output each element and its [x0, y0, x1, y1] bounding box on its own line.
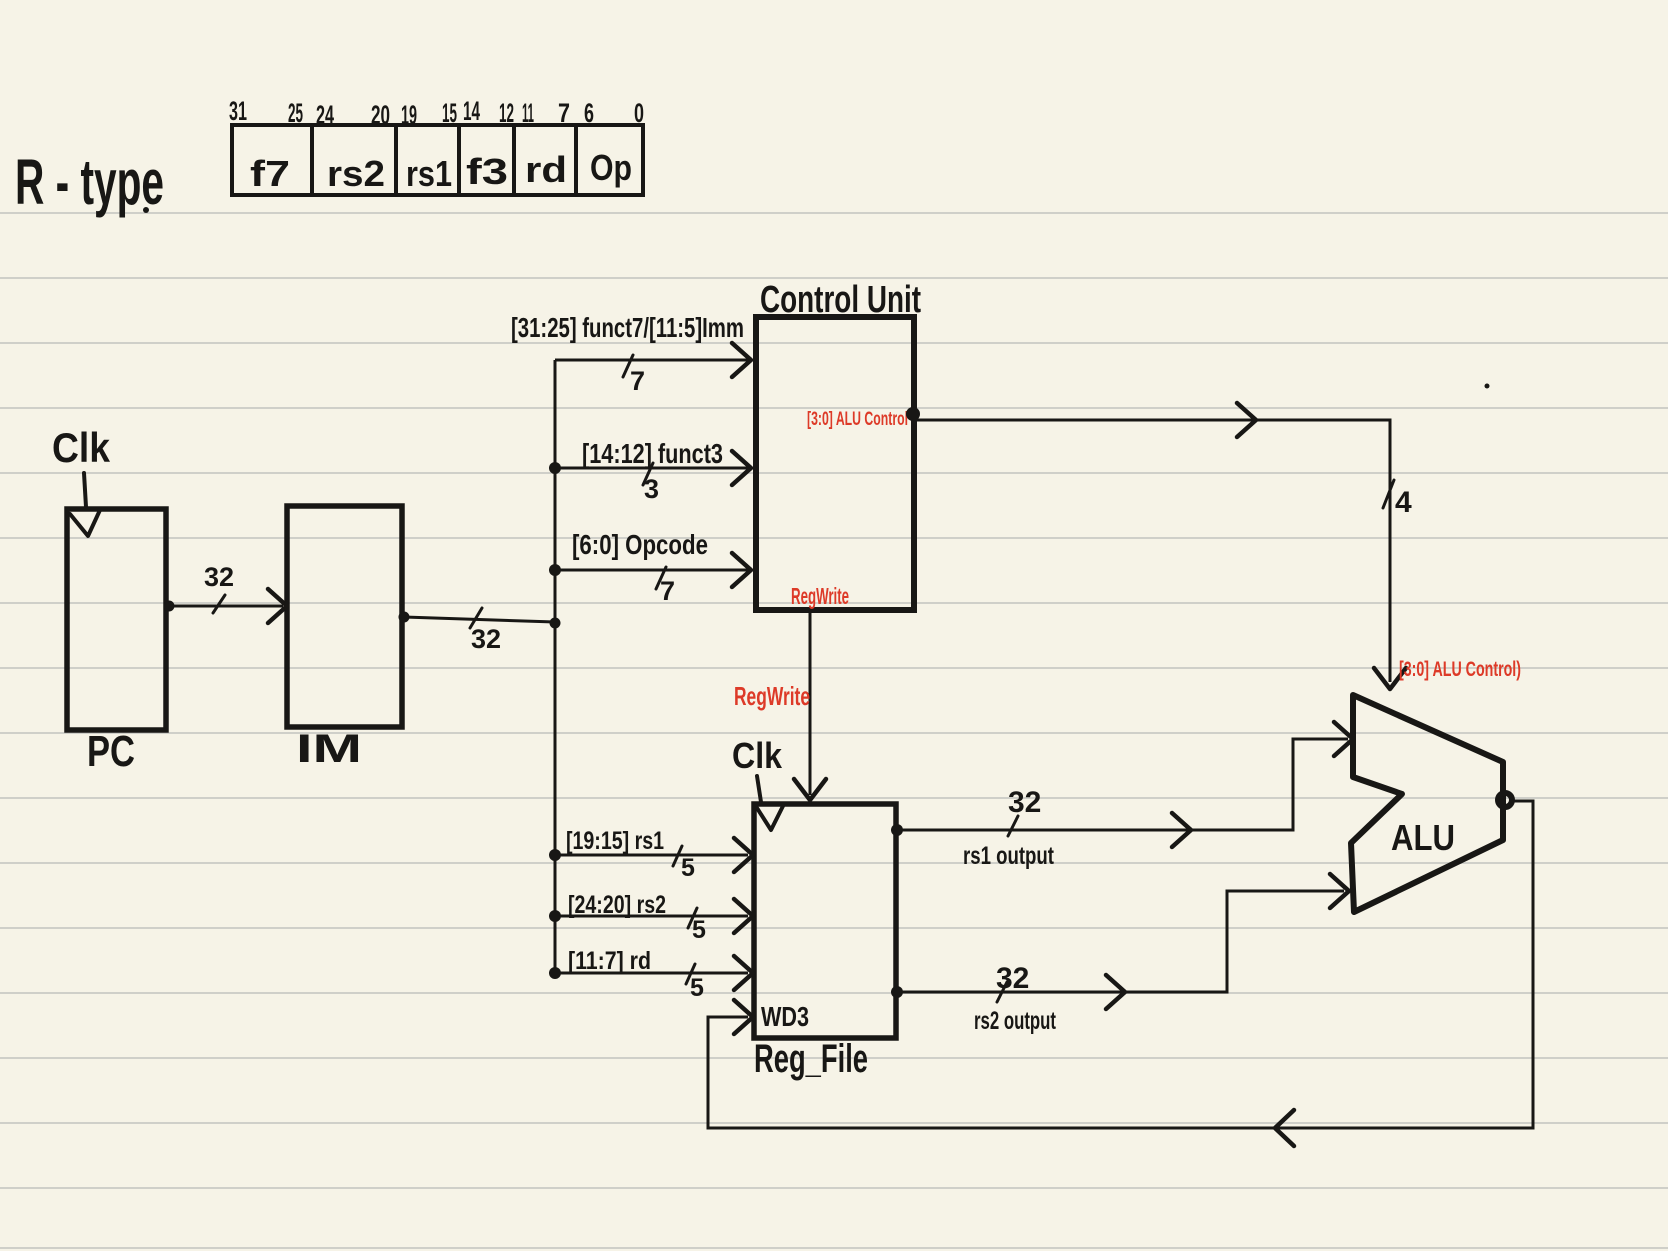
svg-text:12: 12 — [499, 98, 514, 128]
svg-text:R - type: R - type — [15, 146, 164, 218]
wire rs2 output to ALU — [897, 891, 1344, 992]
svg-text:Clk: Clk — [732, 735, 783, 776]
svg-text:25: 25 — [288, 98, 303, 128]
svg-text:5: 5 — [681, 854, 695, 882]
wire opcode to control unit — [555, 569, 748, 572]
svg-text:rd: rd — [525, 149, 567, 190]
svg-text:7: 7 — [660, 576, 675, 606]
svg-text:f7: f7 — [250, 153, 290, 194]
wire ALU control — [914, 420, 1390, 682]
wire funct7 to control unit — [555, 359, 748, 362]
svg-text:15: 15 — [442, 98, 457, 128]
width slash 5 (rs2) — [688, 908, 697, 928]
node ALU control output — [906, 407, 920, 421]
ALU U2 — [1351, 695, 1503, 912]
svg-text:32: 32 — [996, 962, 1029, 995]
svg-text:RegWrite: RegWrite — [791, 583, 849, 609]
label R-type — [15, 146, 164, 218]
svg-text:Clk: Clk — [52, 424, 111, 471]
clk wire into PC — [84, 473, 86, 507]
width slash 32 (rs2 output) — [997, 982, 1007, 1002]
width slash 3 (funct3) — [643, 463, 653, 485]
junction dot rs1 addr — [549, 849, 561, 861]
svg-text:32: 32 — [471, 624, 501, 654]
bit numbers — [229, 96, 644, 130]
instruction format box — [232, 125, 643, 195]
svg-text:rs2 output: rs2 output — [974, 1007, 1056, 1035]
instruction bus vertical — [554, 360, 557, 973]
svg-text:7: 7 — [630, 366, 645, 396]
register file — [754, 804, 896, 1038]
junction dot at IM output — [399, 612, 410, 623]
pen dot after R-type — [143, 207, 149, 213]
svg-text:32: 32 — [1008, 786, 1041, 819]
svg-text:5: 5 — [692, 916, 706, 944]
svg-text:PC: PC — [87, 727, 135, 776]
wire rs1 addr — [555, 854, 748, 857]
svg-text:[19:15] rs1: [19:15] rs1 — [566, 827, 664, 855]
clock wedge register file — [757, 806, 783, 830]
field labels — [250, 147, 632, 194]
clock wedge PC — [70, 510, 100, 536]
clk tick into register file — [757, 776, 761, 802]
svg-text:3: 3 — [644, 474, 659, 504]
svg-text:RegWrite: RegWrite — [734, 681, 810, 711]
stray pen dot — [1485, 384, 1490, 389]
node ALU output — [1498, 793, 1512, 807]
instruction memory IM — [287, 506, 402, 727]
svg-text:ALU: ALU — [1391, 817, 1455, 858]
svg-text:rs2: rs2 — [327, 153, 385, 194]
svg-text:14: 14 — [463, 96, 480, 126]
svg-text:[11:7] rd: [11:7] rd — [568, 947, 651, 975]
svg-text:Reg_File: Reg_File — [754, 1037, 868, 1081]
wire PC to IM — [169, 605, 283, 608]
svg-text:[31:25] funct7/[11:5]Imm: [31:25] funct7/[11:5]Imm — [511, 312, 744, 343]
width slash 4 (ALU control) — [1383, 480, 1394, 508]
svg-text:32: 32 — [204, 562, 234, 592]
svg-text:[3:0] ALU Control: [3:0] ALU Control — [807, 409, 908, 430]
register PC — [67, 509, 166, 730]
svg-text:11: 11 — [522, 98, 534, 128]
width slash 7 (opcode) — [656, 567, 666, 589]
svg-text:0: 0 — [634, 98, 644, 128]
width slash 5 (rs1) — [673, 846, 682, 866]
svg-text:7: 7 — [558, 98, 570, 128]
svg-text:rs1 output: rs1 output — [963, 842, 1055, 870]
feedback wire ALU to WD3 — [708, 801, 1533, 1128]
svg-text:[6:0] Opcode: [6:0] Opcode — [572, 529, 708, 560]
width slash 7 (funct7) — [623, 355, 633, 377]
svg-text:f3: f3 — [466, 151, 508, 192]
wire IM to instruction bus — [404, 617, 555, 622]
svg-text:IM: IM — [296, 727, 362, 771]
width slash 32 (PC-IM) — [213, 595, 225, 613]
svg-text:Op: Op — [590, 147, 632, 188]
junction dot rd addr — [549, 967, 561, 979]
width slash 5 (rd) — [686, 964, 695, 984]
wire rs1 output to ALU — [897, 739, 1348, 830]
svg-text:Control Unit: Control Unit — [760, 279, 921, 321]
junction dot funct3 — [549, 462, 561, 474]
svg-text:[3:0] ALU Control): [3:0] ALU Control) — [1399, 658, 1521, 681]
junction dot rs2 addr — [549, 910, 561, 922]
svg-text:6: 6 — [584, 98, 594, 128]
wire RegWrite — [809, 610, 812, 795]
control unit U1 — [756, 317, 914, 610]
junction dot bus/IM wire — [550, 618, 561, 629]
junction dot rs2 output — [891, 986, 903, 998]
svg-text:19: 19 — [401, 100, 417, 130]
svg-text:24: 24 — [316, 100, 334, 130]
width slash 32 (IM bus) — [470, 608, 482, 628]
junction dot rs1 output — [891, 824, 903, 836]
junction dot at PC output — [164, 601, 175, 612]
wire funct3 to control unit — [555, 467, 748, 470]
wire rs2 addr — [555, 915, 748, 918]
width slash 32 (rs1 output) — [1008, 816, 1018, 836]
svg-text:31: 31 — [229, 96, 247, 126]
junction dot opcode — [549, 564, 561, 576]
svg-text:WD3: WD3 — [761, 1001, 809, 1032]
wire rd addr — [555, 972, 748, 975]
svg-text:rs1: rs1 — [406, 153, 452, 194]
svg-text:20: 20 — [371, 100, 390, 130]
svg-text:5: 5 — [690, 974, 704, 1002]
svg-text:4: 4 — [1395, 486, 1412, 519]
